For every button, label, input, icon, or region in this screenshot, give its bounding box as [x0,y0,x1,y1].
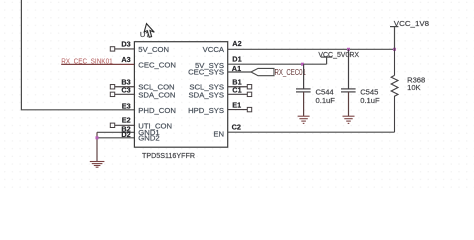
mouse cursor [144,24,154,38]
ground under C545 [343,116,355,123]
junction D1 rail / C544 [301,63,304,66]
pin C3 SDA_CON [115,93,135,95]
svg-text:0.1uF: 0.1uF [316,96,336,105]
wire GND1 pin B2 to ground trunk [97,131,134,133]
svg-text:VCC_5V0RX: VCC_5V0RX [318,50,359,59]
pin B1 SCL_SYS [228,86,248,88]
svg-text:HPD_SYS: HPD_SYS [188,106,224,115]
power symbol VCC_1V8 [390,27,398,50]
svg-text:C2: C2 [232,123,241,132]
wire EN C2 to resistor bottom [228,131,395,133]
pin C1 SDA_SYS [228,93,248,95]
svg-text:EN: EN [213,130,224,139]
svg-text:TPD5S116YFFR: TPD5S116YFFR [142,151,195,160]
svg-text:D3: D3 [121,40,130,49]
svg-text:A3: A3 [121,55,130,64]
junction A2 wire / C545 [347,48,350,51]
wire CEC_SYS A1 to off-page connector [228,71,251,73]
svg-text:E3: E3 [122,101,131,110]
svg-text:PHD_CON: PHD_CON [138,106,176,115]
svg-text:RX_CEC01: RX_CEC01 [275,68,306,77]
svg-text:E2: E2 [122,115,131,124]
svg-text:0.1uF: 0.1uF [360,96,380,105]
pin D3 5V_CON [115,48,135,50]
svg-text:C3: C3 [121,86,130,95]
wire RX_CEC_SINK01 to CEC_CON pin A3 [61,63,134,65]
pin E1 HPD_SYS [228,109,248,111]
capacitor C544 [296,64,311,92]
off-page connector RX_CEC01 [251,68,274,75]
capacitor C545 [341,49,356,92]
svg-text:D1: D1 [232,55,241,64]
svg-text:VCC_1V8: VCC_1V8 [394,19,429,28]
svg-text:VCCA: VCCA [203,45,225,54]
junction on ground trunk at GND2 [96,136,99,139]
resistor R368 [391,49,398,132]
svg-text:A2: A2 [232,39,241,48]
svg-text:CEC_SYS: CEC_SYS [188,68,224,77]
svg-text:E1: E1 [232,100,241,109]
IC U? TPD5S116YFFR body [134,42,227,148]
junction A2 wire / VCC_1V8 stem [393,48,396,51]
svg-text:SDA_SYS: SDA_SYS [189,90,224,99]
svg-text:C1: C1 [232,86,241,95]
svg-text:5V_CON: 5V_CON [138,45,169,54]
power symbol VCC_5V0RX [321,57,332,64]
svg-text:D2: D2 [121,130,130,139]
svg-text:GND2: GND2 [138,134,159,143]
wire GND2 pin D2 to ground trunk [97,137,134,139]
wire 5V_SYS D1 rail [228,63,327,65]
svg-text:SDA_CON: SDA_CON [138,90,175,99]
wire from top edge to PHD_CON (vertical at left) [21,0,134,110]
ground symbol (left, for GND1/GND2) [90,162,105,168]
ground under C544 [298,116,310,123]
pin E2 UTI_CON [115,124,135,126]
wire VCCA A2 to VCC_1V8 stem [228,48,395,50]
pin B3 SCL_CON [115,86,135,88]
svg-text:CEC_CON: CEC_CON [138,60,176,69]
svg-text:10K: 10K [407,83,421,92]
